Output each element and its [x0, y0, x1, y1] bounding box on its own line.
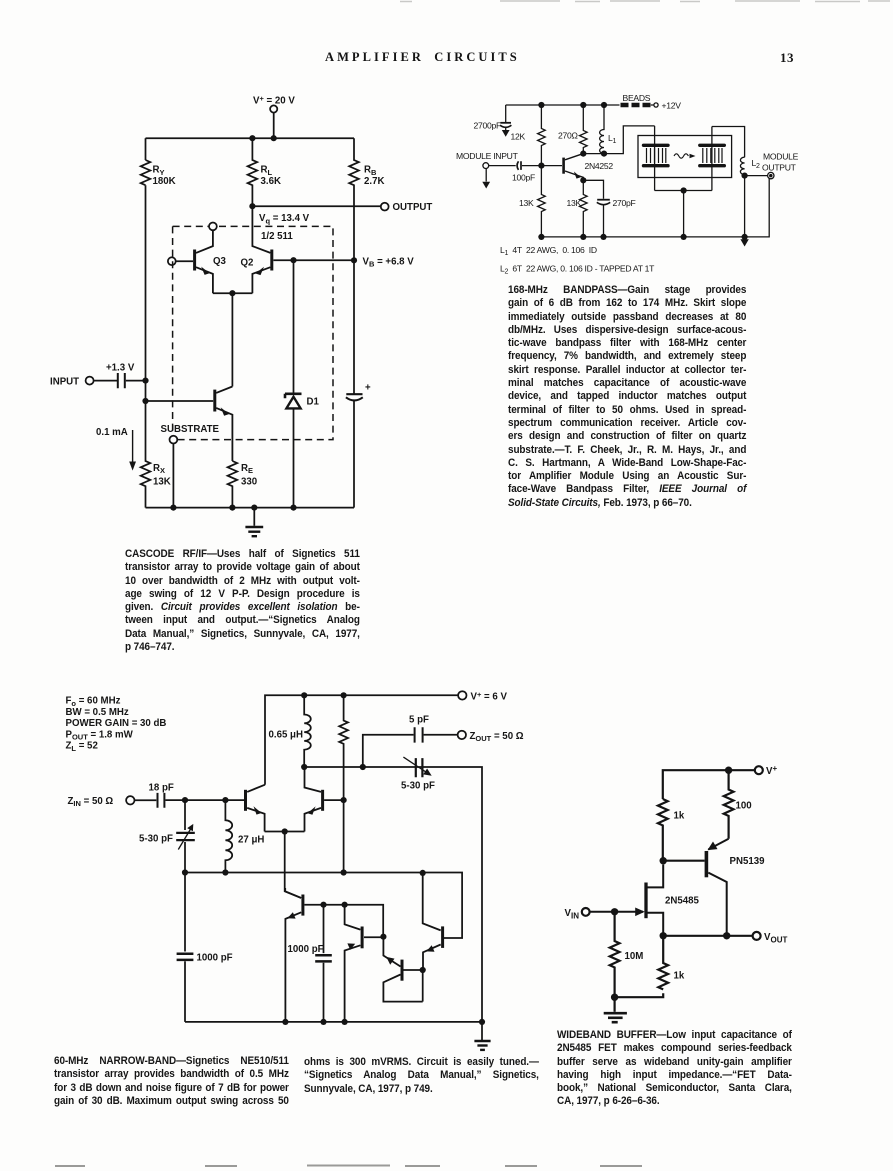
inductor L1 [600, 105, 604, 154]
svg-text:270Ω: 270Ω [558, 131, 578, 141]
terminal collector Q3 on box top [209, 223, 217, 231]
svg-text:VB = +6.8 V: VB = +6.8 V [363, 256, 415, 268]
wire left IDT feed [654, 126, 656, 191]
node 12K top junction [538, 102, 544, 108]
wire collector link [583, 126, 654, 154]
svg-text:L2 6T 22 AWG, 0. 106 ID - TA: L2 6T 22 AWG, 0. 106 ID - TAPPED AT 1T [500, 263, 655, 275]
capacitor 1000pF left [177, 873, 194, 1022]
wire input to cap [489, 165, 516, 167]
svg-text:INPUT: INPUT [50, 376, 79, 387]
svg-text:L2: L2 [752, 158, 761, 170]
wire output line [252, 205, 380, 207]
svg-text:1k: 1k [674, 811, 685, 822]
node 27uH junction [222, 797, 228, 803]
svg-text:5-30 pF: 5-30 pF [401, 781, 435, 792]
ground symbol narrowband [474, 1022, 490, 1050]
terminal V+ [755, 766, 763, 774]
wire right IDT to L2 [712, 127, 745, 158]
node rail ground junction [479, 1019, 485, 1025]
svg-text:18 pF: 18 pF [149, 782, 174, 793]
transistor Q2 [252, 206, 271, 293]
node mid rail bias junction [341, 869, 347, 875]
transistor Qc [285, 888, 303, 1022]
svg-text:+12V: +12V [662, 100, 682, 110]
ground symbol buffer [604, 997, 627, 1022]
wire base Q3 [176, 260, 193, 262]
svg-text:BW = 0.5 MHz: BW = 0.5 MHz [66, 707, 129, 718]
wire tap to output [745, 175, 768, 177]
node rail 270pF junction [600, 234, 606, 240]
wire cap to node [126, 380, 146, 382]
node 5pF branch junction [360, 764, 366, 770]
svg-text:L1: L1 [608, 133, 617, 145]
node mid rail Qf junction [420, 870, 426, 876]
svg-text:330: 330 [241, 476, 257, 487]
terminal V+ = 6 V [458, 691, 466, 699]
acoustic wave arrow [674, 154, 696, 158]
svg-text:Q3: Q3 [213, 256, 227, 267]
capacitor 5-30pF output [403, 757, 431, 777]
terminal +12V [654, 103, 658, 107]
caption 168-MHz BANDPASS [508, 284, 746, 510]
node rail Qd junction [342, 1019, 348, 1025]
node VB junction [351, 257, 357, 263]
node mid rail left junction [182, 869, 188, 875]
resistor 1k drain [658, 799, 668, 861]
wire cap to base [165, 799, 244, 801]
IDT transducer left [644, 145, 669, 165]
wire right IDT drop [711, 127, 713, 191]
inductor L2 [740, 157, 744, 175]
terminal MODULE OUTPUT [768, 172, 774, 178]
resistor RY 180K [141, 160, 151, 185]
resistor 10M [610, 912, 620, 997]
node rail Qc junction [282, 1019, 288, 1025]
transistor Q3 [195, 230, 213, 293]
wire Qe base loop riser [422, 970, 424, 1002]
node gate-drain junction [660, 857, 667, 864]
dashed array boundary box 1/2 511 [173, 226, 333, 439]
svg-text:0.65 μH: 0.65 μH [269, 730, 303, 741]
svg-text:ZL = 52: ZL = 52 [66, 741, 98, 753]
terminal ZOUT [458, 731, 466, 739]
wire emitter to 270pF [583, 180, 603, 199]
caption 60-MHz NARROW-BAND column 2 [304, 1056, 539, 1096]
node Qb base junction [341, 797, 347, 803]
node rail 13K junction [580, 234, 586, 240]
node mid rail 27uH junction [222, 869, 228, 875]
resistor RB 2.7K [349, 138, 359, 260]
node L1 bottom junction [601, 151, 607, 157]
wire input to cap [93, 380, 117, 382]
capacitor 18pF [158, 793, 165, 808]
svg-text:RE: RE [241, 463, 253, 475]
transistor Qd [345, 905, 363, 1022]
node ground node junction [611, 994, 618, 1001]
svg-text:3.6K: 3.6K [261, 176, 281, 187]
svg-text:V+ = 6 V: V+ = 6 V [471, 690, 508, 703]
svg-text:12K: 12K [511, 132, 526, 142]
wire output drop [745, 179, 770, 237]
wire drain node to PN5139 base [663, 860, 704, 862]
transistor 2N5485 JFET [590, 865, 664, 936]
wire Qe base [404, 969, 423, 971]
wire emitter to Qc [285, 832, 301, 898]
node rail filter junction [681, 234, 687, 240]
wire cap to base [522, 165, 562, 167]
capacitor 270pF [597, 200, 610, 237]
svg-text:PN5139: PN5139 [730, 856, 766, 867]
wire Qb base [324, 799, 344, 801]
page number 13 [780, 50, 794, 66]
node 270ohm top junction [580, 102, 586, 108]
ground symbol [245, 508, 263, 537]
svg-text:VOUT: VOUT [764, 932, 787, 945]
caption 60-MHz NARROW-BAND column 1 [54, 1055, 289, 1108]
wire Qd base [364, 936, 383, 938]
svg-text:1000 pF: 1000 pF [197, 952, 233, 963]
wire V+ stem [273, 113, 275, 139]
node L1 top junction [601, 102, 607, 108]
wire Qc base [304, 905, 383, 937]
svg-text:13K: 13K [567, 198, 582, 208]
svg-text:2N5485: 2N5485 [665, 896, 700, 907]
svg-text:100pF: 100pF [512, 173, 535, 183]
capacitor 1000pF right [315, 905, 332, 1022]
node source junction [660, 932, 667, 939]
node junction on rail right [271, 135, 277, 141]
wire top rail [663, 770, 755, 799]
terminal INPUT [86, 377, 94, 385]
caption WIDEBAND BUFFER [557, 1029, 792, 1109]
resistor 13K emitter [580, 180, 588, 237]
terminal V+ = 20 V [270, 105, 277, 112]
wire Q1 collector riser [231, 293, 233, 386]
resistor 270ohm [580, 105, 588, 150]
wire emitter bus Q3-Q2 [213, 292, 253, 294]
transistor PN5139 [706, 839, 728, 936]
svg-text:10M: 10M [625, 951, 644, 962]
wire left branch to input node [145, 185, 147, 380]
transistor Qb diff right [305, 767, 323, 832]
wire +12V top rail [506, 104, 654, 106]
terminal MODULE INPUT [483, 163, 489, 169]
wire 5pF riser [363, 735, 414, 767]
node Qd collector junction [342, 902, 348, 908]
wire base Q2 to VB [273, 259, 354, 261]
svg-text:ZOUT = 50 Ω: ZOUT = 50 Ω [470, 731, 524, 743]
node L2 tap [742, 173, 748, 179]
node emitter bus junction [282, 828, 288, 834]
transistor Q1 [215, 387, 233, 462]
svg-text:100: 100 [736, 801, 752, 812]
svg-text:V+: V+ [766, 764, 777, 777]
node input coupling junction [142, 378, 148, 384]
node collector output junction [723, 932, 730, 939]
svg-text:1000 pF: 1000 pF [288, 944, 324, 955]
svg-text:ZIN = 50 Ω: ZIN = 50 Ω [68, 796, 114, 808]
resistor 13K left [538, 166, 546, 237]
svg-text:Q2: Q2 [241, 258, 254, 269]
wire bottom rail [185, 1021, 482, 1023]
scan artifacts top edge [0, 0, 893, 8]
wire base Q1 [146, 400, 214, 402]
svg-text:V+ = 20 V: V+ = 20 V [253, 94, 295, 107]
node junction on rail left [249, 135, 255, 141]
terminal OUTPUT [381, 203, 389, 211]
wire input [135, 799, 157, 801]
terminal ZIN [126, 796, 134, 804]
svg-text:13K: 13K [519, 198, 534, 208]
node RE rail junction [229, 505, 235, 511]
node VIN junction [611, 908, 618, 915]
node output junction [249, 203, 255, 209]
zener diode D1 [285, 260, 302, 507]
resistor 100 [724, 770, 734, 839]
svg-text:27 μH: 27 μH [238, 834, 264, 845]
filter box [638, 136, 732, 178]
wire substrate to ground rail [172, 444, 174, 508]
svg-text:VIN: VIN [565, 908, 580, 921]
resistor RL 3.6K [248, 138, 258, 206]
transistor 2N4252 [564, 150, 584, 180]
node base Q1 junction [142, 398, 148, 404]
svg-text:POWER GAIN = 30 dB: POWER GAIN = 30 dB [66, 718, 167, 729]
node tank junction [301, 764, 307, 770]
terminal SUBSTRATE [170, 436, 178, 444]
node rail left junction [538, 234, 544, 240]
resistor RE 330 [228, 461, 238, 508]
resistor RX 13K [141, 381, 151, 508]
wire L2 bottom drop [744, 176, 746, 237]
svg-text:1/2 511: 1/2 511 [261, 231, 293, 242]
svg-text:180K: 180K [153, 176, 176, 187]
node D1 rail junction [290, 505, 296, 511]
svg-text:5-30 pF: 5-30 pF [139, 833, 173, 844]
node D1 branch junction [290, 257, 296, 263]
resistor 12K [538, 105, 546, 166]
terminal VIN [582, 908, 590, 916]
node Qd base junction [380, 934, 386, 940]
node 100 top junction [725, 767, 732, 774]
resistor 1k source [658, 936, 668, 990]
node 0.65uH top junction [301, 692, 307, 698]
ground stem input [485, 169, 487, 182]
node emitter bus junction [229, 290, 235, 296]
svg-text:1k: 1k [674, 971, 685, 982]
svg-text:2N4252: 2N4252 [585, 161, 614, 171]
node Qe base junction [420, 967, 426, 973]
node collector junction [580, 151, 586, 157]
transistor Qf [423, 873, 443, 970]
wire base bias drop [343, 800, 345, 872]
inductor 0.65uH [304, 695, 311, 767]
svg-text:SUBSTRATE: SUBSTRATE [161, 424, 220, 435]
capacitor 5-30pF input [176, 800, 195, 872]
wire bottom link [615, 993, 664, 997]
IDT transducer right [700, 145, 725, 165]
terminal VOUT [753, 932, 761, 940]
resistor collector load [339, 695, 348, 800]
wire mid rail [185, 873, 462, 939]
caption CASCODE RF/IF [125, 548, 360, 654]
wire top supply rail [146, 137, 355, 139]
svg-text:D1: D1 [307, 397, 320, 408]
node substrate rail junction [170, 505, 176, 511]
wire bottom ground rail [146, 507, 355, 509]
wire bandpass bottom rail [541, 236, 744, 238]
ground arrow bandpass [740, 239, 748, 246]
ferrite beads [621, 103, 651, 108]
wire 5pF to output [424, 734, 458, 736]
node ground stem junction [251, 505, 257, 511]
inductor 27uH [225, 800, 232, 872]
wire top rail [265, 695, 458, 784]
terminal base Q3 [168, 257, 176, 265]
wire left branch upper [145, 138, 147, 160]
node 1000pF branch junction [320, 902, 326, 908]
svg-text:13K: 13K [153, 476, 171, 487]
svg-text:L1 4T 22 AWG, 0. 106 ID: L1 4T 22 AWG, 0. 106 ID [500, 245, 597, 257]
svg-text:5 pF: 5 pF [409, 715, 429, 726]
svg-text:BEADS: BEADS [623, 93, 651, 103]
node base junction [538, 163, 544, 169]
page header title [325, 50, 520, 65]
svg-text:+1.3 V: +1.3 V [106, 363, 135, 374]
transistor Qe [383, 937, 422, 1002]
svg-text:MODULE: MODULE [763, 152, 799, 162]
current arrow 0.1 mA [132, 430, 134, 463]
wire filter bottom link [655, 190, 712, 192]
capacitor input coupling [118, 373, 125, 388]
svg-text:270pF: 270pF [613, 198, 636, 208]
svg-text:OUTPUT: OUTPUT [393, 202, 433, 213]
wire diff emitter bus [265, 831, 305, 833]
wire output line [663, 935, 752, 937]
node filter ground junction [681, 187, 687, 193]
node emitter junction [580, 177, 586, 183]
node rail 1000pF junction [320, 1019, 326, 1025]
node rail L2 junction [742, 234, 748, 240]
transistor Qa diff left [246, 785, 266, 832]
svg-text:Vq = 13.4 V: Vq = 13.4 V [259, 213, 310, 225]
svg-text:MODULE INPUT: MODULE INPUT [456, 151, 519, 161]
node resistor top junction [341, 692, 347, 698]
svg-text:0.1 mA: 0.1 mA [96, 427, 128, 438]
svg-text:RX: RX [153, 463, 165, 475]
wire tank to feedback [304, 767, 482, 1022]
wire filter ground drop [683, 191, 685, 237]
svg-text:2.7K: 2.7K [364, 176, 384, 187]
capacitor 100pF [517, 161, 521, 170]
svg-text:+: + [365, 383, 371, 394]
polarized bypass capacitor [346, 260, 363, 507]
scan artifacts bottom edge [0, 1160, 893, 1171]
ground arrow input [482, 182, 490, 189]
node input tank junction [182, 797, 188, 803]
capacitor 2700pF [500, 105, 511, 131]
ground arrow 2700pF [502, 130, 510, 137]
capacitor 5pF [415, 727, 423, 742]
svg-text:2700pF: 2700pF [474, 121, 501, 131]
svg-text:OUTPUT: OUTPUT [762, 163, 797, 173]
